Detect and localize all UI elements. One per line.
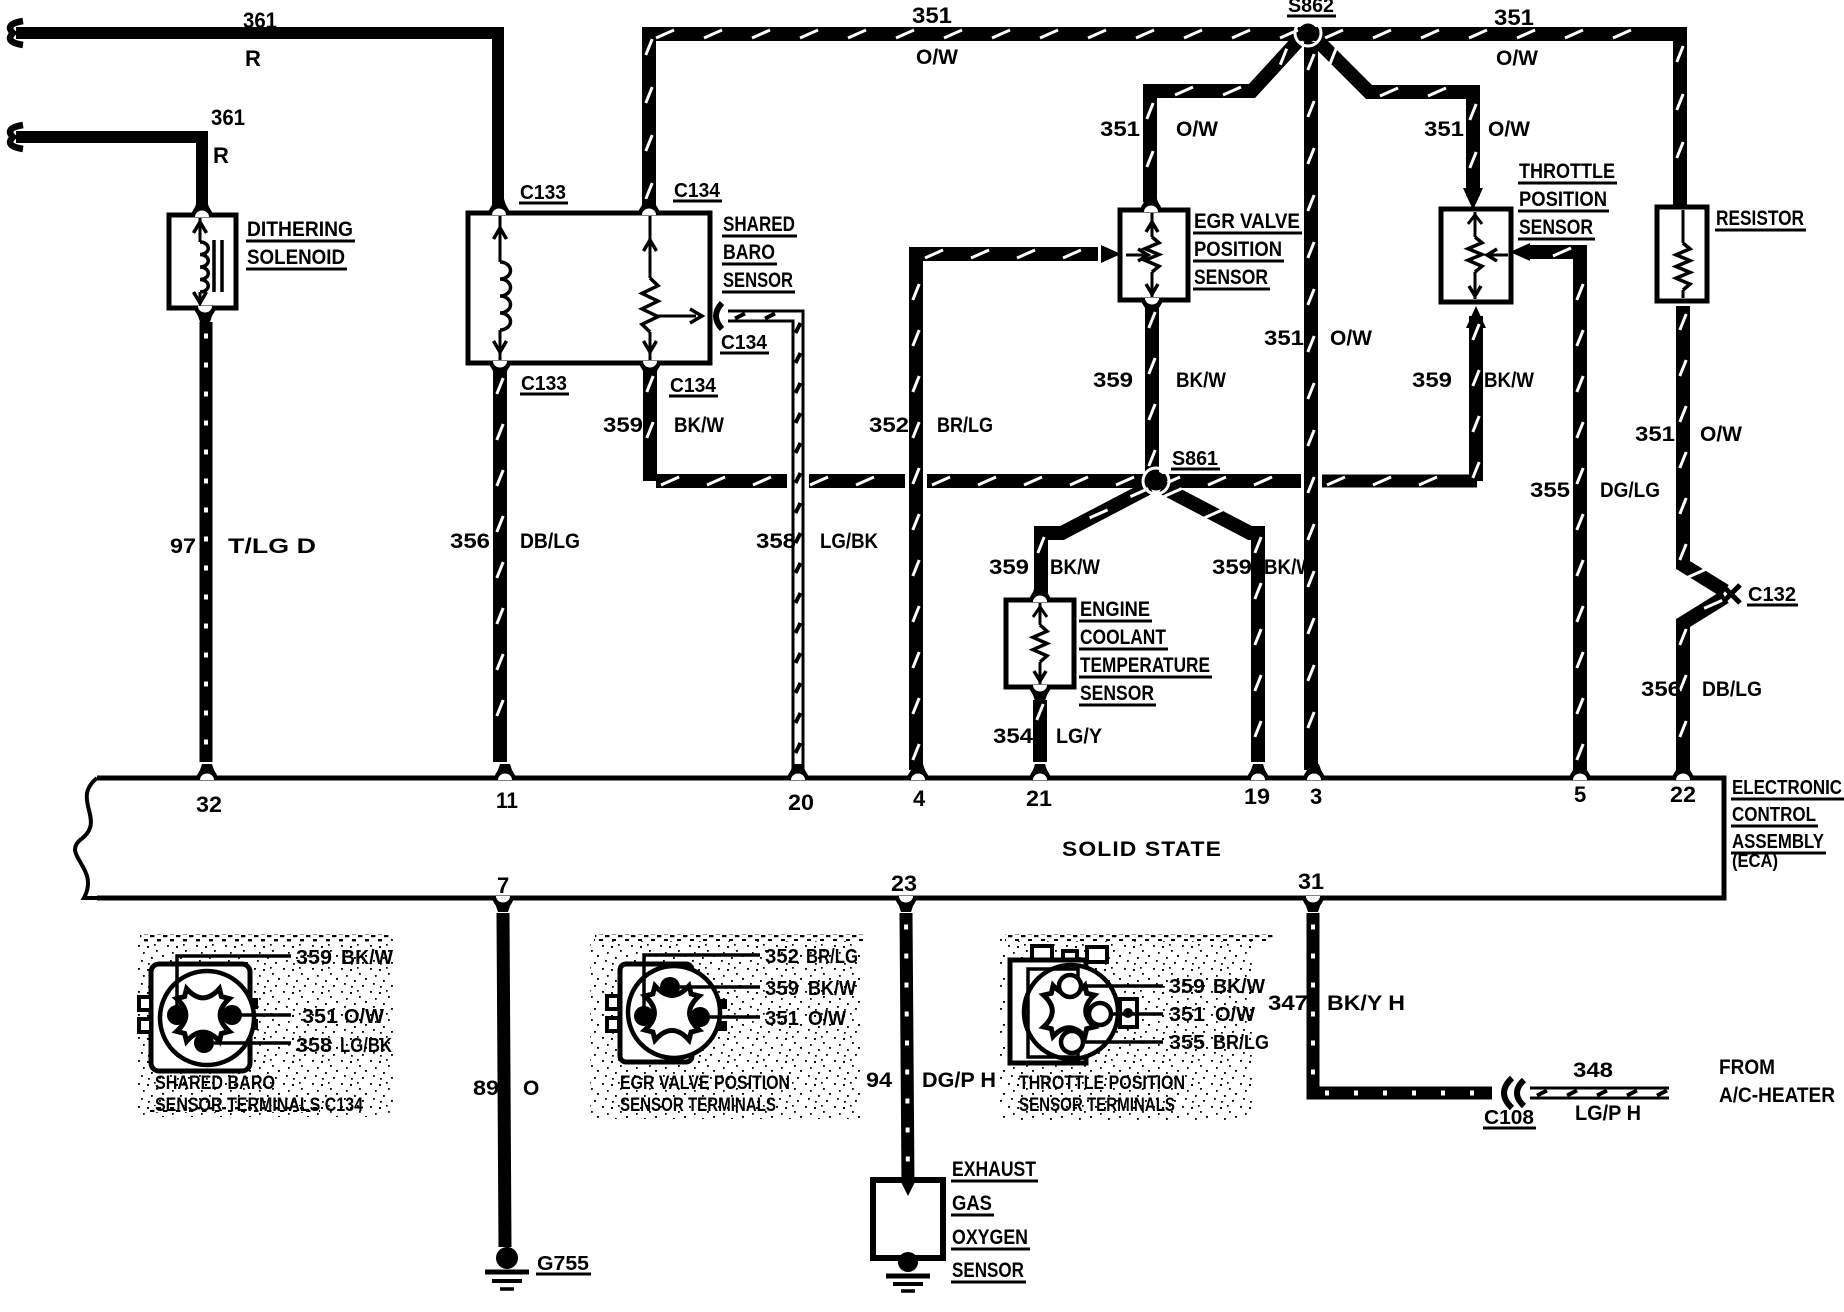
svg-text:ASSEMBLY: ASSEMBLY <box>1732 831 1825 853</box>
wire 89 O (ECA pin 7 to ground G755) <box>503 913 505 1247</box>
svg-text:R: R <box>213 143 229 168</box>
svg-text:O: O <box>523 1077 539 1100</box>
svg-text:O/W: O/W <box>1215 1004 1255 1026</box>
svg-text:C108: C108 <box>1484 1107 1534 1129</box>
svg-text:BK/W: BK/W <box>1176 369 1226 392</box>
wire 351 O/W (S862 to resistor) <box>1314 34 1680 207</box>
node S861 junction <box>1143 468 1169 494</box>
svg-text:359: 359 <box>603 414 643 437</box>
svg-text:351: 351 <box>1264 327 1304 350</box>
svg-text:ELECTRONIC: ELECTRONIC <box>1732 777 1842 799</box>
svg-text:SHARED: SHARED <box>723 213 795 236</box>
svg-text:348: 348 <box>1573 1059 1613 1082</box>
svg-text:354: 354 <box>993 725 1033 748</box>
svg-text:359: 359 <box>1093 369 1133 392</box>
node S862 junction <box>1295 20 1321 46</box>
pin 31 <box>1300 896 1326 912</box>
svg-text:GAS: GAS <box>952 1192 992 1215</box>
svg-text:359: 359 <box>765 978 799 1000</box>
svg-text:O/W: O/W <box>344 1006 384 1028</box>
wire 356 DB/LG (C132 to ECA pin 22) <box>1683 597 1725 770</box>
svg-text:11: 11 <box>496 788 518 813</box>
svg-text:352: 352 <box>765 946 799 968</box>
wire 348 LG/P H (C108 from A/C-heater) <box>1530 1087 1669 1100</box>
svg-text:RESISTOR: RESISTOR <box>1716 207 1804 230</box>
svg-text:G755: G755 <box>537 1253 589 1275</box>
svg-text:CONTROL: CONTROL <box>1732 804 1816 826</box>
svg-text:3: 3 <box>1310 784 1322 809</box>
svg-text:ENGINE: ENGINE <box>1080 598 1150 621</box>
svg-text:SENSOR TERMINALS: SENSOR TERMINALS <box>620 1095 776 1116</box>
svg-text:LG/P H: LG/P H <box>1575 1102 1641 1125</box>
terminal fork at coolant sensor top <box>1027 586 1053 602</box>
wire 359 BK/W (EGR sensor to S861) <box>1145 308 1159 474</box>
svg-text:BK/W: BK/W <box>1050 556 1100 579</box>
terminal fork at EGR sensor bottom <box>1139 298 1165 314</box>
svg-text:DB/LG: DB/LG <box>1702 678 1762 701</box>
svg-text:SENSOR TERMINALS C134: SENSOR TERMINALS C134 <box>155 1095 363 1116</box>
svg-text:351: 351 <box>302 1006 338 1028</box>
resistor <box>1657 207 1707 301</box>
svg-text:BK/W: BK/W <box>808 978 856 1000</box>
wire 361 R (top feed) <box>16 33 498 206</box>
wire 94 DG/P H (ECA pin 23 to oxygen sensor) <box>906 913 908 1186</box>
svg-text:361: 361 <box>243 8 277 33</box>
svg-text:POSITION: POSITION <box>1519 188 1607 211</box>
svg-text:351: 351 <box>765 1008 799 1030</box>
svg-text:359: 359 <box>296 947 332 969</box>
connector C108 <box>1504 1078 1512 1108</box>
wire 356 DB/LG (C133 to ECA pin 11) <box>493 370 507 762</box>
svg-text:89: 89 <box>473 1077 499 1100</box>
svg-text:BK/W: BK/W <box>1213 976 1265 998</box>
svg-text:THROTTLE POSITION: THROTTLE POSITION <box>1019 1073 1185 1094</box>
svg-text:359: 359 <box>1169 976 1205 998</box>
svg-text:O/W: O/W <box>1496 47 1538 70</box>
svg-text:LG/Y: LG/Y <box>1056 725 1102 748</box>
wire 351 O/W (top run to S862) <box>649 34 1302 207</box>
wire 97 T/LG D (solenoid to ECA pin 32) <box>200 322 213 762</box>
svg-text:O/W: O/W <box>1488 118 1530 141</box>
svg-text:351: 351 <box>1494 5 1534 30</box>
svg-text:BK/Y H: BK/Y H <box>1327 992 1405 1015</box>
svg-text:19: 19 <box>1244 784 1270 809</box>
svg-text:356: 356 <box>450 530 490 553</box>
svg-text:C132: C132 <box>1748 584 1796 606</box>
pin 5 <box>1567 764 1593 780</box>
svg-text:BR/LG: BR/LG <box>806 946 858 968</box>
svg-text:356: 356 <box>1641 678 1681 701</box>
svg-text:C133: C133 <box>520 182 566 204</box>
svg-text:EGR VALVE: EGR VALVE <box>1194 210 1300 233</box>
svg-text:C133: C133 <box>521 373 567 395</box>
wire 351 O/W (resistor to C132) <box>1683 306 1725 591</box>
svg-text:LG/BK: LG/BK <box>340 1035 392 1057</box>
throttle position sensor <box>1441 209 1511 302</box>
svg-text:SHARED BARO: SHARED BARO <box>155 1073 275 1094</box>
svg-text:359: 359 <box>1212 556 1252 579</box>
electronic control assembly (ECA) box <box>97 778 1724 898</box>
ground at oxygen sensor <box>898 1252 918 1272</box>
svg-text:SENSOR TERMINALS: SENSOR TERMINALS <box>1019 1095 1175 1116</box>
engine coolant temperature sensor <box>1006 600 1074 687</box>
svg-text:BK/W: BK/W <box>1264 556 1314 579</box>
terminal fork at solenoid bottom <box>192 306 218 322</box>
svg-text:23: 23 <box>891 871 917 896</box>
svg-text:COOLANT: COOLANT <box>1080 626 1166 649</box>
wire 352 BR/LG (EGR wiper to ECA pin 4) <box>916 254 1098 770</box>
terminal fork at coolant sensor bottom <box>1027 685 1053 701</box>
EGR valve position sensor terminals drawing <box>590 934 862 1119</box>
pin 23 <box>893 896 919 912</box>
svg-text:R: R <box>245 46 261 71</box>
pin 3 <box>1301 764 1327 780</box>
wire 361 R (solenoid feed) <box>16 137 202 208</box>
svg-text:DG/P H: DG/P H <box>922 1069 996 1092</box>
svg-text:TEMPERATURE: TEMPERATURE <box>1080 654 1210 677</box>
svg-text:A/C-HEATER: A/C-HEATER <box>1719 1084 1835 1107</box>
svg-text:358: 358 <box>296 1035 332 1057</box>
svg-text:SENSOR: SENSOR <box>723 269 793 292</box>
baro sensor inductor element <box>499 216 502 262</box>
svg-text:94: 94 <box>866 1069 892 1092</box>
wire 359 BK/W (S861 horizontal bus) <box>656 474 787 488</box>
svg-text:O/W: O/W <box>1330 327 1372 350</box>
svg-text:SENSOR: SENSOR <box>1080 682 1154 705</box>
svg-text:O/W: O/W <box>1176 118 1218 141</box>
svg-text:351: 351 <box>1100 118 1140 141</box>
pin 19 <box>1245 764 1271 780</box>
svg-text:351: 351 <box>912 3 952 28</box>
throttle position sensor terminals drawing <box>1000 934 1252 1120</box>
svg-text:SENSOR: SENSOR <box>952 1259 1024 1282</box>
pin 21 <box>1027 764 1053 780</box>
svg-text:32: 32 <box>196 792 222 817</box>
svg-text:355: 355 <box>1530 479 1570 502</box>
wire 359 BK/W (S861 to coolant sensor) <box>1041 487 1150 595</box>
svg-text:97: 97 <box>170 535 196 558</box>
svg-text:SENSOR: SENSOR <box>1519 216 1593 239</box>
svg-text:351: 351 <box>1635 423 1675 446</box>
svg-text:DB/LG: DB/LG <box>520 530 580 553</box>
wire 359 BK/W (throttle sensor to S861 bus) <box>1466 306 1486 328</box>
svg-text:SENSOR: SENSOR <box>1194 266 1268 289</box>
svg-text:POSITION: POSITION <box>1194 238 1282 261</box>
svg-text:O/W: O/W <box>808 1008 846 1030</box>
svg-text:BK/W: BK/W <box>341 947 393 969</box>
terminal fork at EGR sensor top <box>1138 196 1164 212</box>
svg-text:31: 31 <box>1298 869 1324 894</box>
connector C133 top terminal <box>486 199 512 215</box>
wire 354 LG/Y (coolant sensor to ECA pin 21) <box>1033 700 1047 762</box>
pin 32 <box>194 764 220 780</box>
svg-text:EGR VALVE POSITION: EGR VALVE POSITION <box>620 1073 790 1094</box>
pin 11 <box>492 764 518 780</box>
dithering solenoid <box>169 215 236 308</box>
svg-text:358: 358 <box>756 530 796 553</box>
wire 355 DG/LG (throttle wiper to ECA pin 5) <box>1530 252 1580 770</box>
connector C134 bottom terminal <box>637 361 663 377</box>
wire 358 LG/BK (baro wiper to ECA pin 20) <box>728 316 798 770</box>
pin 7 <box>490 896 516 912</box>
svg-text:359: 359 <box>1412 369 1452 392</box>
wire 359 BK/W (S861 to ECA pin 19) <box>1162 487 1258 762</box>
EGR valve position sensor <box>1120 210 1188 300</box>
svg-text:EXHAUST: EXHAUST <box>952 1158 1036 1181</box>
wire 351 O/W (S862 branch to EGR sensor) <box>1150 42 1297 202</box>
svg-text:O/W: O/W <box>1700 423 1742 446</box>
svg-text:T/LG D: T/LG D <box>228 535 316 558</box>
svg-text:OXYGEN: OXYGEN <box>952 1226 1028 1249</box>
wire 347 BK/Y H (ECA pin 31 to C108) <box>1313 913 1492 1093</box>
svg-text:347: 347 <box>1268 992 1308 1015</box>
baro sensor potentiometer element <box>649 216 652 278</box>
wire 351 O/W (S862 branch to throttle position sensor) <box>1319 42 1473 196</box>
svg-text:C134: C134 <box>721 332 768 354</box>
pin 4 <box>905 764 931 780</box>
svg-text:(ECA): (ECA) <box>1732 851 1778 871</box>
svg-text:22: 22 <box>1670 782 1696 807</box>
svg-text:C134: C134 <box>674 180 721 202</box>
ground G755 <box>496 1247 518 1269</box>
wire 351 O/W (S862 vertical to ECA pin 3) <box>1304 42 1318 770</box>
svg-text:DG/LG: DG/LG <box>1600 479 1660 502</box>
svg-text:4: 4 <box>913 786 926 811</box>
svg-text:351: 351 <box>1169 1004 1205 1026</box>
svg-text:352: 352 <box>869 414 909 437</box>
svg-text:BARO: BARO <box>723 241 775 264</box>
connector C133 bottom terminal <box>487 361 513 377</box>
svg-text:5: 5 <box>1574 782 1586 807</box>
svg-text:BR/LG: BR/LG <box>1213 1032 1269 1054</box>
svg-text:21: 21 <box>1026 786 1052 811</box>
connector C132 <box>1722 585 1740 603</box>
svg-text:BK/W: BK/W <box>674 414 724 437</box>
shared baro sensor terminals C134 drawing <box>135 934 394 1117</box>
svg-text:DITHERING: DITHERING <box>247 218 353 241</box>
svg-text:FROM: FROM <box>1719 1056 1775 1079</box>
exhaust gas oxygen sensor <box>873 1180 943 1258</box>
wire 359 BK/W (C134 to S861 run) <box>643 370 657 481</box>
svg-text:THROTTLE: THROTTLE <box>1519 160 1615 183</box>
connector C134 top terminal <box>636 199 662 215</box>
shared baro sensor <box>468 213 710 363</box>
connector C134 wiper chevron <box>716 303 722 329</box>
svg-text:C134: C134 <box>670 375 717 397</box>
svg-text:7: 7 <box>497 873 509 898</box>
svg-text:O/W: O/W <box>916 46 958 69</box>
svg-text:359: 359 <box>989 556 1029 579</box>
pin 20 <box>785 764 811 780</box>
svg-text:BR/LG: BR/LG <box>937 414 993 437</box>
svg-text:20: 20 <box>788 790 814 815</box>
pin 22 <box>1670 764 1696 780</box>
svg-text:BK/W: BK/W <box>1484 369 1534 392</box>
svg-text:SOLID STATE: SOLID STATE <box>1062 838 1222 861</box>
svg-text:355: 355 <box>1169 1032 1205 1054</box>
svg-text:S861: S861 <box>1172 448 1218 470</box>
svg-text:361: 361 <box>211 105 245 130</box>
terminal fork at solenoid top <box>189 201 215 217</box>
svg-text:LG/BK: LG/BK <box>820 530 878 553</box>
svg-text:SOLENOID: SOLENOID <box>247 246 345 269</box>
svg-text:S862: S862 <box>1288 0 1334 17</box>
svg-text:351: 351 <box>1424 118 1464 141</box>
